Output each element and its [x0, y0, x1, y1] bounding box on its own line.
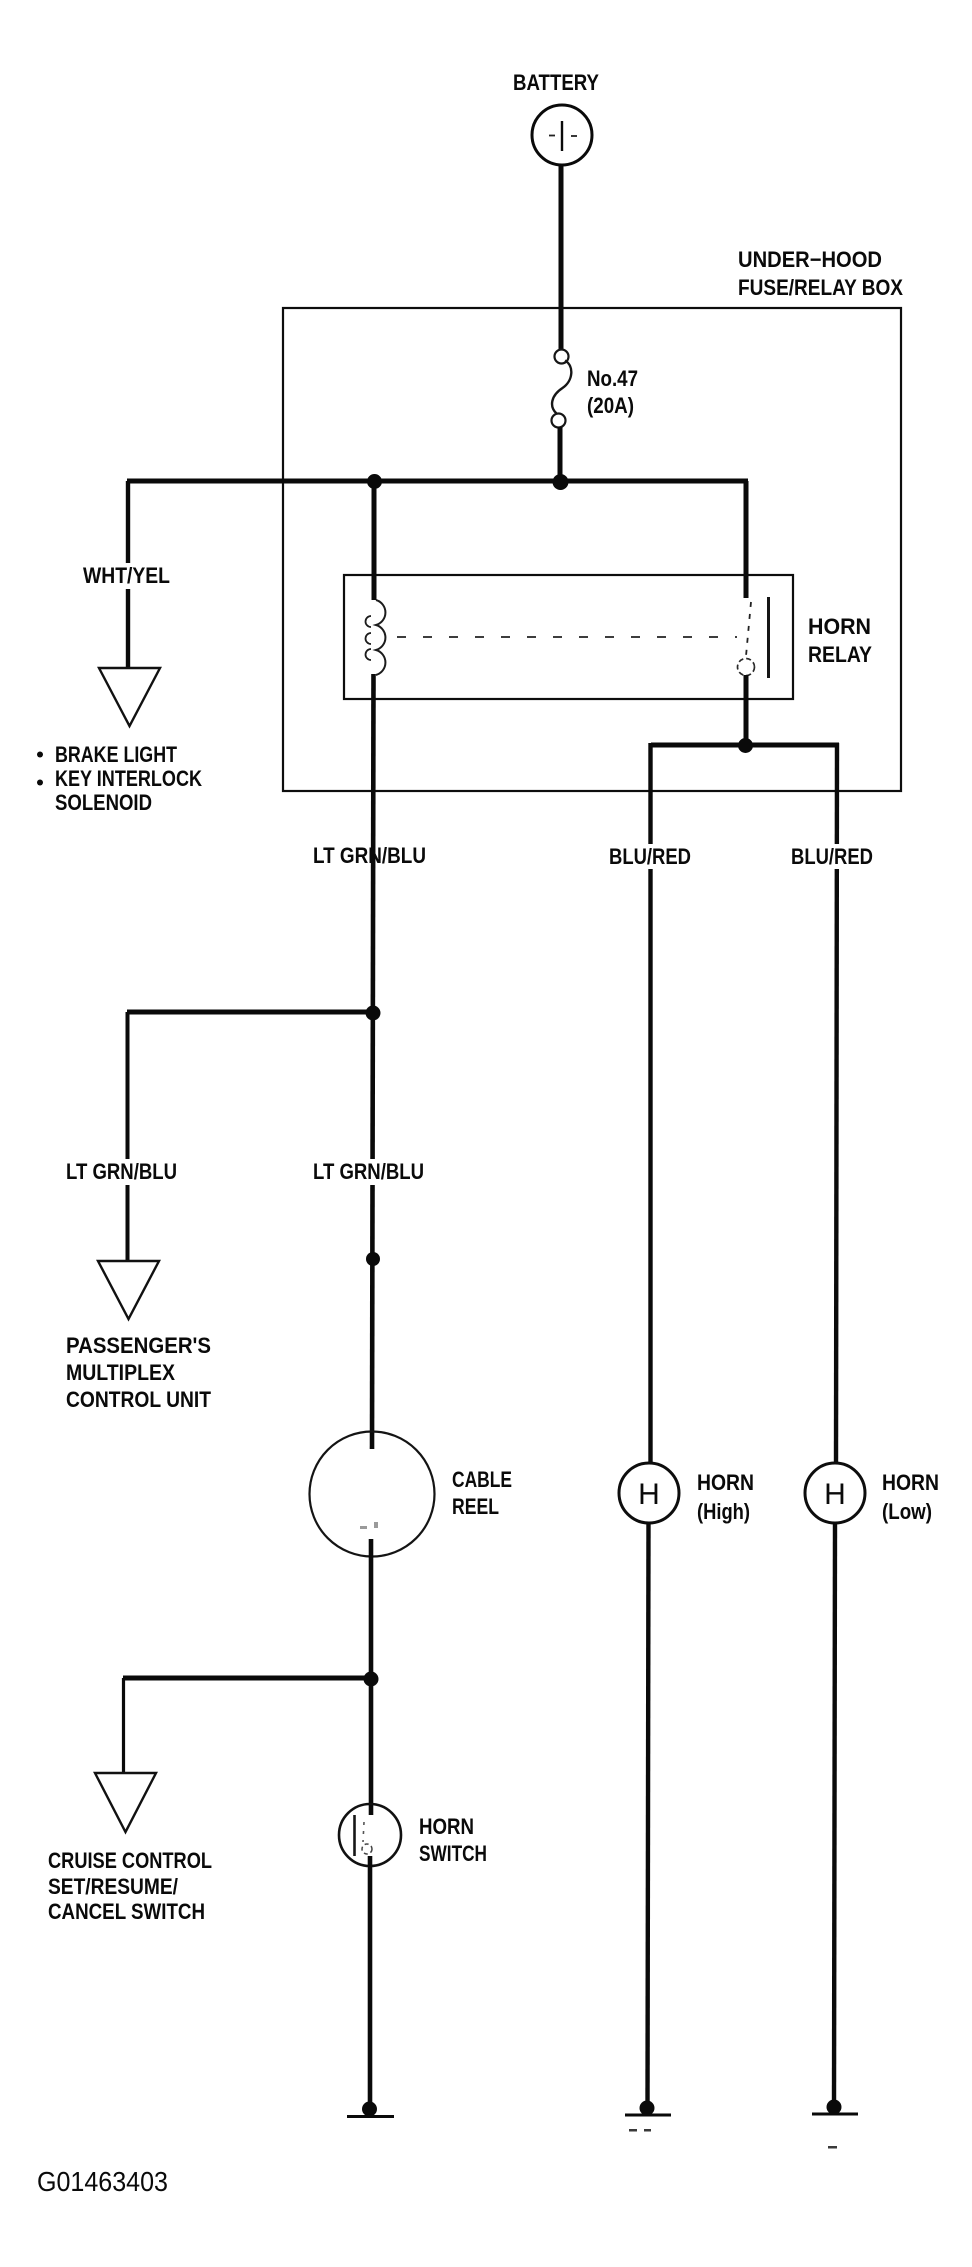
label BATTERY	[513, 70, 599, 95]
connector arrow to brake light	[99, 668, 160, 726]
junction dot B	[553, 474, 569, 490]
label BLU/RED right	[789, 844, 875, 869]
svg-text:MULTIPLEX: MULTIPLEX	[66, 1360, 175, 1385]
wire branch to cruise control vertical	[122, 1678, 125, 1773]
wire relay contact down	[744, 675, 749, 746]
label LT GRN/BLU left branch	[64, 1159, 179, 1185]
svg-text:BATTERY: BATTERY	[513, 70, 599, 95]
svg-text:LT GRN/BLU: LT GRN/BLU	[66, 1159, 177, 1184]
label PASSENGER'S MULTIPLEX CONTROL UNIT	[66, 1333, 211, 1412]
svg-text:H: H	[824, 1478, 846, 1511]
horn feed horizontal wire	[651, 743, 839, 748]
svg-text:PASSENGER'S: PASSENGER'S	[66, 1333, 211, 1358]
svg-text:SET/RESUME/: SET/RESUME/	[48, 1874, 178, 1899]
label HORN (High)	[697, 1470, 754, 1524]
label WHT/YEL	[81, 563, 173, 589]
horn relay box	[344, 575, 793, 699]
cable reel	[310, 1432, 435, 1557]
label CRUISE CONTROL SET/RESUME/ CANCEL SWITCH	[48, 1848, 212, 1924]
junction dot F	[364, 1672, 379, 1687]
label LT GRN/BLU main	[311, 1159, 426, 1185]
label HORN SWITCH	[419, 1814, 487, 1866]
svg-text:BRAKE LIGHT: BRAKE LIGHT	[55, 742, 177, 767]
svg-text:HORN: HORN	[882, 1470, 939, 1495]
wire battery to fuse	[559, 165, 564, 350]
svg-text:CANCEL SWITCH: CANCEL SWITCH	[48, 1899, 205, 1924]
svg-text:HORN: HORN	[697, 1470, 754, 1495]
svg-text:(High): (High)	[697, 1499, 750, 1524]
ground G1	[347, 2102, 394, 2117]
label G01463403	[37, 2166, 168, 2197]
svg-text:REEL: REEL	[452, 1494, 499, 1519]
relay movable contact arm	[746, 602, 751, 656]
label HORN RELAY	[808, 614, 872, 667]
wire branch to multiplex horizontal	[127, 1010, 373, 1015]
label CABLE REEL	[452, 1467, 512, 1519]
svg-text:LT GRN/BLU: LT GRN/BLU	[313, 1159, 424, 1184]
svg-text:BLU/RED: BLU/RED	[609, 844, 691, 869]
ground G3	[812, 2100, 858, 2149]
wire horn high to ground	[648, 1523, 649, 2104]
svg-text:CABLE: CABLE	[452, 1467, 512, 1492]
svg-text:HORN: HORN	[419, 1814, 474, 1839]
horn switch	[339, 1804, 401, 1866]
under-hood fuse/relay box	[283, 308, 901, 791]
label BLU/RED left	[607, 844, 693, 869]
wire to horn low upper	[836, 743, 837, 1463]
svg-text:WHT/YEL: WHT/YEL	[83, 563, 170, 588]
battery	[532, 105, 592, 165]
connector arrow to cruise control	[95, 1773, 156, 1832]
wire to horn high upper	[648, 743, 652, 1463]
label UNDER-HOOD FUSE/RELAY BOX	[738, 247, 903, 300]
svg-text:HORN: HORN	[808, 614, 871, 639]
wire WHT/YEL drop	[126, 481, 130, 668]
wire bus drop to relay contact	[744, 481, 749, 598]
wire fuse to bus	[558, 427, 563, 481]
wire cable reel to horn switch	[369, 1539, 374, 1815]
wire horn switch to ground	[368, 1856, 373, 2105]
label No.47 (20A)	[587, 366, 638, 418]
svg-text:CONTROL UNIT: CONTROL UNIT	[66, 1387, 211, 1412]
fuse No.47	[552, 350, 572, 428]
svg-text:H: H	[638, 1478, 660, 1511]
junction dot A	[367, 474, 382, 489]
svg-text:KEY INTERLOCK: KEY INTERLOCK	[55, 766, 202, 791]
svg-text:G01463403: G01463403	[37, 2166, 168, 2197]
wire main bus horizontal	[127, 479, 748, 484]
junction dot E	[366, 1252, 380, 1266]
horn (low)	[805, 1463, 865, 1523]
wire horn low to ground	[834, 1523, 835, 2103]
junction dot C	[738, 738, 753, 753]
ground G2	[625, 2101, 671, 2132]
label LT GRN/BLU below box	[311, 843, 428, 869]
junction dot D	[366, 1006, 381, 1021]
svg-text:SOLENOID: SOLENOID	[55, 790, 152, 815]
horn (high)	[619, 1463, 679, 1523]
svg-text:FUSE/RELAY BOX: FUSE/RELAY BOX	[738, 275, 903, 300]
label HORN (Low)	[882, 1470, 939, 1524]
svg-text:UNDER−HOOD: UNDER−HOOD	[738, 247, 882, 272]
wire branch to cruise control horizontal	[123, 1676, 371, 1681]
wire bus to relay coil	[372, 481, 377, 600]
svg-text:No.47: No.47	[587, 366, 638, 391]
wire main vertical coil to cable reel	[372, 674, 374, 1449]
svg-text:BLU/RED: BLU/RED	[791, 844, 873, 869]
svg-text:(20A): (20A)	[587, 393, 634, 418]
connector arrow to multiplex	[98, 1261, 159, 1319]
relay dashed actuator link	[397, 636, 737, 638]
relay contact circle	[738, 659, 755, 676]
label BRAKE LIGHT / KEY INTERLOCK SOLENOID	[37, 742, 202, 815]
svg-text:LT GRN/BLU: LT GRN/BLU	[313, 843, 426, 868]
relay coil L1	[366, 600, 386, 675]
svg-text:RELAY: RELAY	[808, 642, 872, 667]
relay fixed contact bar	[767, 597, 770, 678]
svg-text:CRUISE CONTROL: CRUISE CONTROL	[48, 1848, 212, 1873]
svg-text:(Low): (Low)	[882, 1499, 932, 1524]
svg-text:SWITCH: SWITCH	[419, 1841, 487, 1866]
wire branch to multiplex vertical	[126, 1012, 130, 1261]
